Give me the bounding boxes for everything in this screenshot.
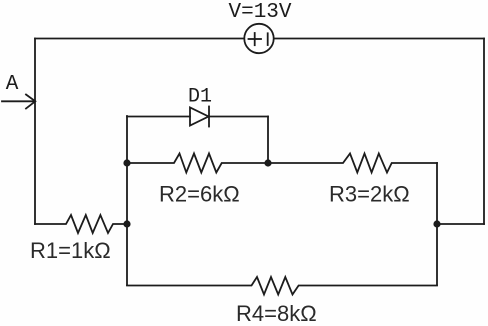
- arrow at node A: [2, 95, 35, 109]
- svg-text:A: A: [6, 73, 19, 96]
- svg-text:D1: D1: [188, 86, 212, 109]
- svg-text:V=13V: V=13V: [229, 1, 292, 24]
- wire inner-left vertical: [126, 116, 128, 285]
- diode D1: [127, 107, 268, 164]
- svg-text:R4=8kΩ: R4=8kΩ: [236, 301, 317, 326]
- svg-text:R3=2kΩ: R3=2kΩ: [329, 182, 410, 207]
- svg-text:R1=1kΩ: R1=1kΩ: [30, 238, 111, 263]
- wire right vertical: [483, 39, 485, 225]
- wire left vertical: [34, 39, 36, 225]
- resistor R3: [268, 154, 437, 173]
- svg-text:R2=6kΩ: R2=6kΩ: [159, 182, 240, 207]
- wire bottom-right to node: [437, 223, 484, 225]
- node junction R1: [123, 220, 130, 227]
- resistor R4: [127, 277, 437, 295]
- node junction R2-left: [123, 159, 130, 166]
- node junction R2-right: [264, 159, 271, 166]
- resistor R1: [35, 215, 127, 233]
- resistor R2: [127, 154, 268, 173]
- voltage source V: [244, 24, 273, 53]
- wire top-right horizontal: [274, 38, 484, 40]
- node junction R3-R4: [433, 220, 440, 227]
- wire inner-right vertical: [436, 163, 438, 285]
- wire top-left horizontal: [35, 38, 244, 40]
